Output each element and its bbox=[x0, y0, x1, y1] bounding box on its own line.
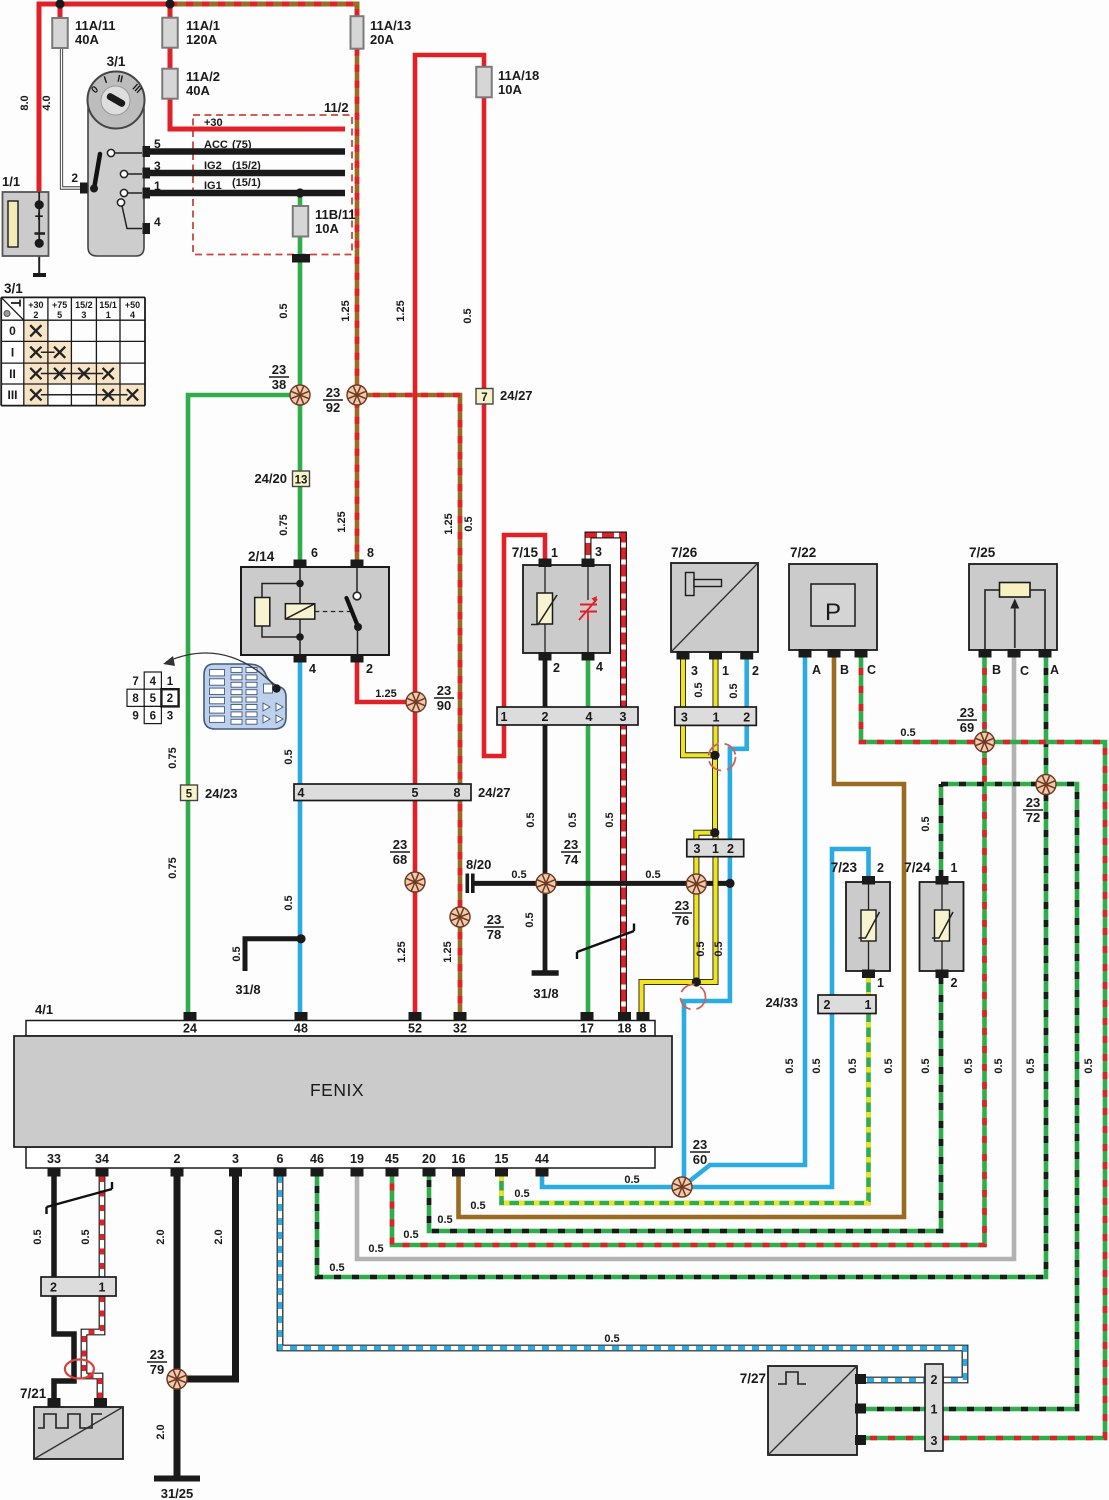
svg-text:3: 3 bbox=[691, 664, 698, 678]
svg-text:0.5: 0.5 bbox=[624, 1174, 639, 1186]
svg-text:78: 78 bbox=[487, 927, 501, 942]
svg-text:1: 1 bbox=[154, 179, 161, 193]
svg-text:4: 4 bbox=[150, 676, 157, 688]
svg-text:0.5: 0.5 bbox=[963, 1058, 975, 1073]
svg-text:3: 3 bbox=[681, 711, 688, 725]
svg-text:7: 7 bbox=[481, 392, 487, 404]
svg-text:72: 72 bbox=[1026, 810, 1040, 825]
svg-text:4/1: 4/1 bbox=[35, 1002, 53, 1017]
svg-text:8.0: 8.0 bbox=[19, 95, 31, 110]
svg-text:4: 4 bbox=[130, 310, 135, 320]
svg-text:1: 1 bbox=[167, 676, 174, 688]
svg-text:C: C bbox=[1020, 664, 1029, 678]
svg-text:III: III bbox=[7, 388, 17, 402]
svg-text:15: 15 bbox=[495, 1152, 509, 1166]
svg-text:0.5: 0.5 bbox=[1025, 1058, 1037, 1073]
svg-text:20: 20 bbox=[422, 1152, 436, 1166]
svg-text:33: 33 bbox=[47, 1152, 61, 1166]
svg-text:3: 3 bbox=[232, 1152, 239, 1166]
svg-text:2: 2 bbox=[71, 171, 78, 185]
svg-text:2: 2 bbox=[174, 1152, 181, 1166]
svg-text:6: 6 bbox=[150, 710, 156, 722]
svg-text:B: B bbox=[992, 663, 1001, 677]
svg-text:(15/1): (15/1) bbox=[232, 177, 261, 189]
svg-text:7: 7 bbox=[132, 676, 138, 688]
svg-text:5: 5 bbox=[186, 789, 193, 801]
svg-text:2: 2 bbox=[877, 861, 884, 875]
svg-text:5: 5 bbox=[150, 693, 157, 705]
svg-text:90: 90 bbox=[437, 698, 451, 713]
svg-text:0.5: 0.5 bbox=[604, 812, 616, 827]
svg-text:7/21: 7/21 bbox=[20, 1386, 47, 1401]
svg-text:23: 23 bbox=[675, 898, 689, 913]
svg-text:2.0: 2.0 bbox=[155, 1424, 167, 1439]
svg-text:0.5: 0.5 bbox=[470, 1200, 485, 1212]
svg-text:4: 4 bbox=[298, 786, 305, 800]
svg-text:8: 8 bbox=[367, 546, 374, 560]
svg-text:1: 1 bbox=[865, 998, 872, 1012]
svg-text:2.0: 2.0 bbox=[213, 1229, 225, 1244]
svg-text:23: 23 bbox=[393, 837, 407, 852]
svg-text:2: 2 bbox=[951, 976, 958, 990]
svg-text:0.5: 0.5 bbox=[463, 516, 475, 531]
svg-text:45: 45 bbox=[385, 1152, 399, 1166]
svg-text:2: 2 bbox=[931, 1373, 938, 1387]
svg-text:2: 2 bbox=[167, 693, 173, 705]
svg-text:11A/2: 11A/2 bbox=[186, 69, 220, 84]
svg-text:0.5: 0.5 bbox=[462, 308, 474, 323]
svg-text:0.5: 0.5 bbox=[80, 1229, 92, 1244]
svg-text:3: 3 bbox=[154, 159, 161, 173]
svg-text:3/1: 3/1 bbox=[107, 54, 126, 69]
svg-text:ACC: ACC bbox=[204, 139, 228, 151]
svg-text:79: 79 bbox=[150, 1362, 164, 1377]
svg-text:7/24: 7/24 bbox=[904, 860, 931, 875]
svg-text:7/22: 7/22 bbox=[790, 545, 816, 560]
svg-text:23: 23 bbox=[960, 705, 974, 720]
svg-text:38: 38 bbox=[272, 377, 286, 392]
svg-text:IG1: IG1 bbox=[204, 180, 222, 192]
svg-text:1.25: 1.25 bbox=[336, 511, 348, 532]
svg-text:5: 5 bbox=[154, 137, 161, 151]
svg-text:23: 23 bbox=[564, 837, 578, 852]
svg-text:4: 4 bbox=[586, 710, 593, 724]
svg-text:C: C bbox=[867, 663, 876, 677]
svg-text:IG2: IG2 bbox=[204, 160, 222, 172]
svg-text:24/23: 24/23 bbox=[205, 786, 238, 801]
svg-text:FENIX: FENIX bbox=[310, 1080, 364, 1100]
svg-text:0.5: 0.5 bbox=[278, 303, 290, 318]
svg-text:0.5: 0.5 bbox=[368, 1243, 383, 1255]
svg-text:11A/13: 11A/13 bbox=[370, 18, 411, 33]
svg-text:4: 4 bbox=[309, 662, 316, 676]
svg-text:1: 1 bbox=[712, 842, 719, 856]
svg-text:68: 68 bbox=[393, 852, 407, 867]
svg-text:2: 2 bbox=[752, 664, 759, 678]
svg-text:7/26: 7/26 bbox=[671, 545, 698, 560]
svg-text:0.5: 0.5 bbox=[920, 816, 932, 831]
svg-text:0.75: 0.75 bbox=[278, 514, 290, 535]
svg-text:+30: +30 bbox=[28, 300, 43, 310]
svg-text:5: 5 bbox=[57, 310, 62, 320]
svg-text:7/15: 7/15 bbox=[512, 545, 539, 560]
svg-text:0.5: 0.5 bbox=[847, 1058, 859, 1073]
svg-text:31/8: 31/8 bbox=[235, 982, 260, 997]
svg-text:40A: 40A bbox=[75, 32, 99, 47]
svg-text:32: 32 bbox=[453, 1022, 467, 1036]
svg-text:24: 24 bbox=[183, 1022, 197, 1036]
svg-text:2: 2 bbox=[824, 998, 831, 1012]
svg-text:24/27: 24/27 bbox=[478, 785, 511, 800]
svg-text:0.5: 0.5 bbox=[713, 941, 725, 956]
svg-text:0.5: 0.5 bbox=[695, 941, 707, 956]
svg-text:24/20: 24/20 bbox=[254, 471, 287, 486]
svg-text:2.0: 2.0 bbox=[155, 1229, 167, 1244]
svg-text:3: 3 bbox=[931, 1434, 938, 1448]
svg-text:0.5: 0.5 bbox=[525, 812, 537, 827]
svg-text:3: 3 bbox=[620, 710, 627, 724]
svg-text:24/33: 24/33 bbox=[765, 995, 798, 1010]
svg-text:4: 4 bbox=[596, 660, 603, 674]
svg-text:1.25: 1.25 bbox=[442, 941, 454, 962]
svg-text:11/2: 11/2 bbox=[324, 100, 349, 115]
svg-text:A: A bbox=[1050, 663, 1059, 677]
svg-text:+75: +75 bbox=[52, 300, 67, 310]
svg-text:A: A bbox=[812, 663, 821, 677]
svg-text:3: 3 bbox=[694, 842, 701, 856]
svg-text:1.25: 1.25 bbox=[375, 688, 396, 700]
svg-text:8/20: 8/20 bbox=[466, 857, 491, 872]
svg-text:23: 23 bbox=[150, 1347, 164, 1362]
svg-text:24/27: 24/27 bbox=[500, 388, 533, 403]
svg-text:4.0: 4.0 bbox=[41, 95, 53, 110]
svg-text:10A: 10A bbox=[315, 221, 339, 236]
svg-text:44: 44 bbox=[535, 1152, 549, 1166]
svg-text:2: 2 bbox=[366, 662, 373, 676]
svg-text:1: 1 bbox=[106, 310, 111, 320]
svg-text:52: 52 bbox=[408, 1022, 422, 1036]
svg-text:1: 1 bbox=[951, 861, 958, 875]
svg-text:4: 4 bbox=[154, 215, 161, 229]
svg-text:9: 9 bbox=[132, 710, 138, 722]
svg-text:1: 1 bbox=[713, 711, 720, 725]
svg-text:15/1: 15/1 bbox=[99, 300, 117, 310]
svg-text:B: B bbox=[840, 663, 849, 677]
svg-text:1/1: 1/1 bbox=[2, 174, 20, 189]
svg-text:1: 1 bbox=[99, 1281, 106, 1295]
svg-text:1: 1 bbox=[877, 976, 884, 990]
svg-text:3: 3 bbox=[167, 710, 173, 722]
svg-text:0.5: 0.5 bbox=[604, 1333, 619, 1345]
svg-text:1: 1 bbox=[551, 546, 558, 560]
svg-text:19: 19 bbox=[350, 1152, 364, 1166]
svg-text:20A: 20A bbox=[370, 32, 394, 47]
svg-text:0.5: 0.5 bbox=[567, 812, 579, 827]
svg-text:6: 6 bbox=[311, 546, 318, 560]
svg-text:0.5: 0.5 bbox=[920, 1058, 932, 1073]
svg-text:0.5: 0.5 bbox=[645, 869, 660, 881]
svg-text:2: 2 bbox=[743, 711, 750, 725]
svg-text:0.5: 0.5 bbox=[283, 749, 295, 764]
svg-text:34: 34 bbox=[95, 1152, 109, 1166]
svg-text:0.5: 0.5 bbox=[811, 1058, 823, 1073]
svg-text:11A/18: 11A/18 bbox=[498, 68, 539, 83]
svg-text:23: 23 bbox=[326, 385, 340, 400]
svg-text:17: 17 bbox=[580, 1022, 594, 1036]
svg-text:3: 3 bbox=[81, 310, 86, 320]
svg-text:74: 74 bbox=[564, 852, 579, 867]
svg-text:2: 2 bbox=[542, 710, 549, 724]
svg-text:23: 23 bbox=[272, 362, 286, 377]
svg-text:1: 1 bbox=[931, 1403, 938, 1417]
svg-text:6: 6 bbox=[277, 1152, 284, 1166]
svg-text:11A/1: 11A/1 bbox=[186, 18, 220, 33]
svg-text:0.75: 0.75 bbox=[167, 747, 179, 768]
svg-text:7/27: 7/27 bbox=[740, 1371, 766, 1386]
svg-text:1: 1 bbox=[501, 710, 508, 724]
svg-text:11A/11: 11A/11 bbox=[75, 18, 116, 33]
svg-text:76: 76 bbox=[675, 913, 689, 928]
svg-text:0.5: 0.5 bbox=[993, 1058, 1005, 1073]
svg-text:0.5: 0.5 bbox=[329, 1262, 344, 1274]
svg-text:15/2: 15/2 bbox=[75, 300, 93, 310]
svg-text:+: + bbox=[35, 208, 44, 225]
svg-text:2: 2 bbox=[50, 1281, 57, 1295]
svg-text:31/8: 31/8 bbox=[533, 986, 558, 1001]
svg-text:23: 23 bbox=[1026, 795, 1040, 810]
svg-text:23: 23 bbox=[693, 1137, 707, 1152]
svg-text:0.5: 0.5 bbox=[231, 946, 243, 961]
svg-text:16: 16 bbox=[452, 1152, 466, 1166]
svg-text:1.25: 1.25 bbox=[443, 513, 455, 534]
svg-text:10A: 10A bbox=[498, 82, 522, 97]
svg-text:0: 0 bbox=[9, 324, 16, 338]
svg-text:0.5: 0.5 bbox=[32, 1229, 44, 1244]
svg-text:0.5: 0.5 bbox=[728, 683, 740, 698]
svg-text:(15/2): (15/2) bbox=[232, 160, 261, 172]
svg-text:I: I bbox=[11, 346, 14, 360]
svg-text:2: 2 bbox=[727, 842, 734, 856]
svg-text:8: 8 bbox=[132, 693, 139, 705]
svg-text:0.5: 0.5 bbox=[524, 912, 536, 927]
svg-text:0.5: 0.5 bbox=[1083, 1058, 1095, 1073]
svg-text:1.25: 1.25 bbox=[396, 941, 408, 962]
svg-text:31/25: 31/25 bbox=[161, 1486, 194, 1500]
svg-text:5: 5 bbox=[412, 786, 419, 800]
svg-text:23: 23 bbox=[437, 683, 451, 698]
svg-text:8: 8 bbox=[454, 786, 461, 800]
svg-text:46: 46 bbox=[310, 1152, 324, 1166]
svg-text:0.5: 0.5 bbox=[693, 682, 705, 697]
svg-text:+50: +50 bbox=[125, 300, 140, 310]
svg-text:60: 60 bbox=[693, 1152, 707, 1167]
svg-text:11B/11: 11B/11 bbox=[315, 207, 356, 222]
svg-text:0.5: 0.5 bbox=[403, 1229, 418, 1241]
svg-text:13: 13 bbox=[295, 475, 308, 487]
svg-text:+30: +30 bbox=[204, 117, 223, 129]
svg-text:3/1: 3/1 bbox=[4, 281, 23, 296]
svg-text:(75): (75) bbox=[232, 139, 252, 151]
svg-text:120A: 120A bbox=[186, 32, 218, 47]
svg-text:8: 8 bbox=[640, 1022, 647, 1036]
svg-text:0.5: 0.5 bbox=[900, 727, 915, 739]
svg-text:69: 69 bbox=[960, 720, 974, 735]
svg-text:0.5: 0.5 bbox=[883, 1058, 895, 1073]
svg-text:0.5: 0.5 bbox=[283, 895, 295, 910]
svg-text:7/25: 7/25 bbox=[969, 545, 996, 560]
svg-text:7/23: 7/23 bbox=[831, 860, 858, 875]
svg-text:18: 18 bbox=[618, 1022, 632, 1036]
svg-text:0.5: 0.5 bbox=[511, 869, 526, 881]
svg-text:0.5: 0.5 bbox=[514, 1188, 529, 1200]
svg-text:40A: 40A bbox=[186, 83, 210, 98]
svg-text:2/14: 2/14 bbox=[248, 549, 275, 564]
svg-text:0.75: 0.75 bbox=[167, 857, 179, 878]
svg-text:1.25: 1.25 bbox=[340, 300, 352, 321]
svg-text:1.25: 1.25 bbox=[395, 300, 407, 321]
svg-text:P: P bbox=[825, 599, 841, 626]
svg-text:2: 2 bbox=[33, 310, 38, 320]
svg-text:1: 1 bbox=[722, 664, 729, 678]
svg-text:0.5: 0.5 bbox=[784, 1058, 796, 1073]
svg-text:II: II bbox=[9, 367, 16, 381]
svg-text:23: 23 bbox=[487, 912, 501, 927]
svg-text:2: 2 bbox=[553, 661, 560, 675]
svg-text:0.5: 0.5 bbox=[437, 1214, 452, 1226]
svg-text:92: 92 bbox=[326, 400, 340, 415]
svg-text:48: 48 bbox=[294, 1022, 308, 1036]
svg-text:3: 3 bbox=[595, 545, 602, 559]
